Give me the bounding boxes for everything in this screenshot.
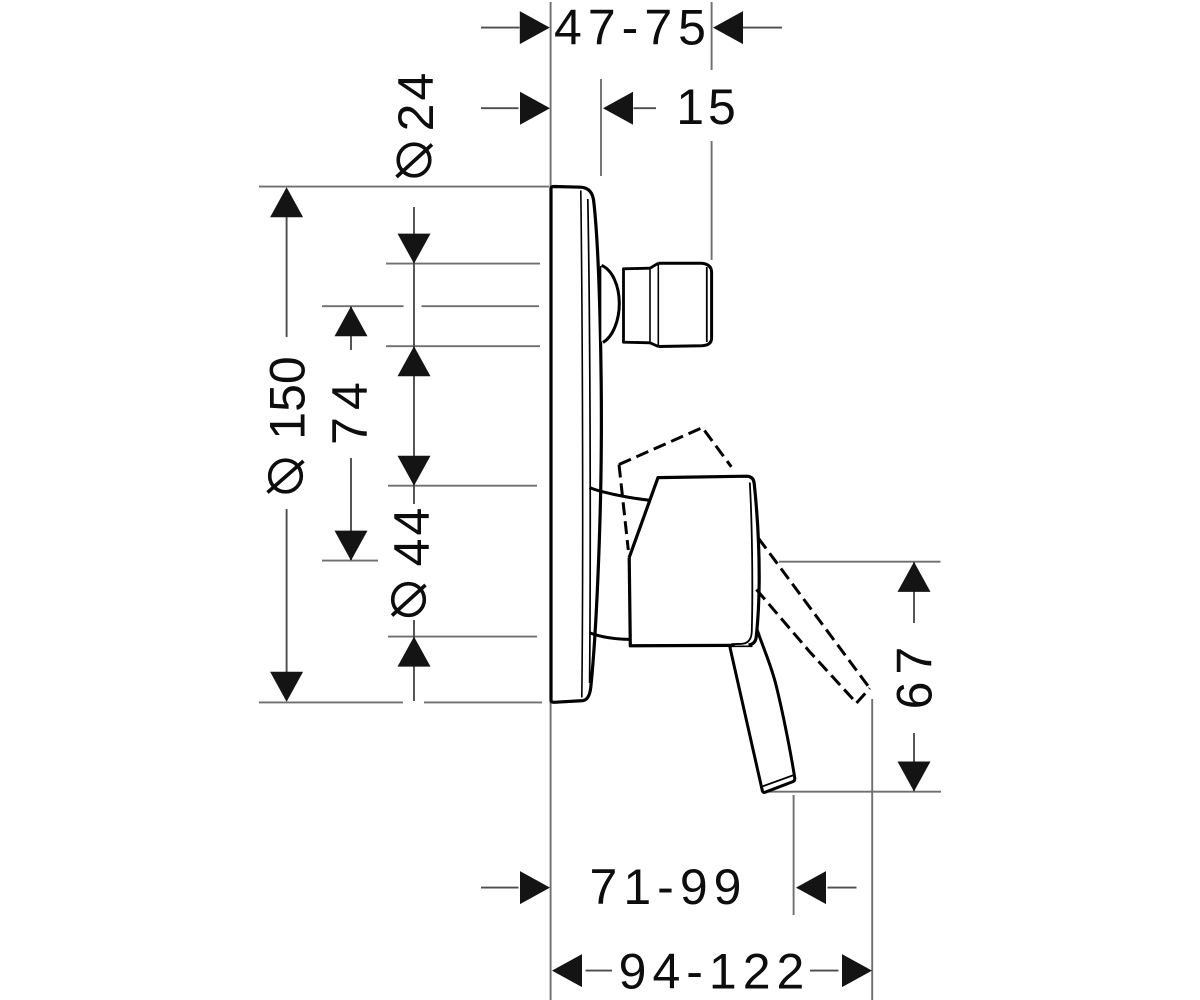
- arrow 74 bottom: [335, 531, 368, 561]
- label D24 diameter symbol: [397, 144, 433, 177]
- arrow 67 top: [898, 562, 931, 592]
- label D150 diameter symbol: [268, 460, 304, 492]
- dashed raised handle top edge: [619, 428, 702, 465]
- svg-text:24: 24: [388, 70, 444, 132]
- arrow 15 right: [603, 92, 633, 125]
- label 67 background: [907, 623, 922, 733]
- arrow D24 bottom: [398, 346, 431, 376]
- dimension 94-122 leaders: [586, 970, 839, 972]
- top reference line plate: [259, 186, 549, 188]
- arrow 94-122 right: [842, 954, 872, 987]
- dashed raised lever lower edge: [756, 590, 856, 704]
- label D44 background: [407, 504, 422, 620]
- svg-text:150: 150: [260, 356, 316, 439]
- svg-text:67: 67: [887, 640, 943, 710]
- dimension 15 leaders: [481, 107, 656, 109]
- arrow D44 bottom: [398, 637, 431, 667]
- stub dome base line: [600, 266, 602, 342]
- stub cap left edge line: [657, 264, 659, 347]
- handle bottom thin continuation: [731, 645, 753, 647]
- extension line 15 right: [600, 79, 602, 176]
- reference line stub top: [386, 263, 540, 265]
- stub cap: [658, 263, 711, 346]
- dimension line D24-D44: [413, 207, 415, 701]
- handle body bottom and left edge: [629, 558, 731, 646]
- svg-text:47-75: 47-75: [554, 0, 712, 56]
- handle body top and right edge: [629, 476, 759, 645]
- reference line dome top: [388, 485, 537, 487]
- reference line cartridge axis: [322, 560, 378, 562]
- escutcheon plate: [551, 187, 601, 703]
- reference line lever up: [779, 561, 941, 563]
- extension line lever tip: [793, 795, 795, 915]
- dimension line 67: [913, 563, 915, 792]
- valve stub dome mask: [600, 265, 619, 342]
- arrow D44 top: [398, 456, 431, 486]
- svg-text:71-99: 71-99: [590, 859, 748, 915]
- stub chamfer top: [650, 263, 658, 268]
- lever: [730, 627, 795, 792]
- arrow D150 bottom: [270, 672, 303, 702]
- arrow 47-75 right: [713, 11, 743, 44]
- arrow 74 top: [335, 306, 368, 336]
- handle body fill: [629, 476, 759, 646]
- dimension 71-99 leaders: [481, 887, 857, 889]
- extension line raised lever tip: [871, 699, 873, 1000]
- wall reference line: [550, 2, 552, 1000]
- dashed raised lever tip: [857, 688, 870, 703]
- dimension line D150: [286, 189, 288, 701]
- dashed raised lever upper edge: [758, 538, 870, 688]
- stub collar edge line: [649, 269, 651, 343]
- plate face line A: [581, 191, 583, 698]
- reference line stub axis: [322, 305, 539, 307]
- reference line lever down: [768, 791, 941, 793]
- label D150 background: [279, 337, 294, 509]
- stub cap inner line: [706, 267, 708, 342]
- cartridge dome upper arc: [590, 488, 651, 501]
- arrow D24 top: [398, 234, 431, 264]
- reference line stub bottom: [386, 345, 540, 347]
- label 74 background: [344, 350, 359, 458]
- dashed raised handle right edge: [705, 431, 732, 467]
- handle face inner line: [731, 483, 752, 645]
- arrow 67 bottom: [898, 762, 931, 792]
- arrow 71-99 left: [520, 871, 550, 904]
- label D44 diameter symbol: [392, 584, 426, 616]
- dimension 47-75 leaders: [481, 27, 782, 29]
- reference line dome bottom: [388, 636, 537, 638]
- svg-text:74: 74: [322, 375, 378, 445]
- dimension line 74: [350, 307, 352, 561]
- arrow 94-122 left: [552, 954, 582, 987]
- arrow 47-75 left: [520, 11, 550, 44]
- plate face line B: [588, 199, 590, 683]
- dashed raised handle left edge: [619, 465, 628, 551]
- lever tip inner line: [761, 775, 793, 786]
- extension line 47-75 right: [711, 2, 713, 260]
- svg-text:94-122: 94-122: [619, 944, 811, 1000]
- stub chamfer bottom: [650, 343, 658, 347]
- svg-text:44: 44: [384, 505, 440, 567]
- svg-text:15: 15: [676, 79, 740, 135]
- stub collar: [624, 268, 651, 343]
- arrow 15 left: [520, 92, 550, 125]
- arrow D150 top: [270, 187, 303, 217]
- arrow 71-99 right: [796, 871, 826, 904]
- valve stub dome: [602, 265, 620, 342]
- cartridge dome lower arc: [590, 633, 630, 640]
- bottom reference line plate: [259, 701, 542, 703]
